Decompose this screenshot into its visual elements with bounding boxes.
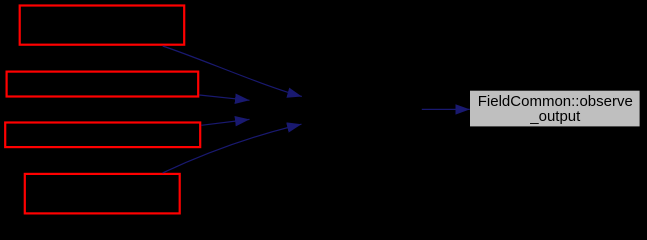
caller node box 4 (red, truncated)	[25, 174, 180, 214]
edge arrow box1 to middle node	[163, 46, 302, 97]
edge arrow middle node to FieldCommon::observe_output	[422, 108, 470, 110]
edge arrow box4 to middle node	[163, 124, 302, 173]
caller node box 3 (red, truncated)	[5, 123, 200, 148]
current node FieldCommon::observe_output (grey)	[470, 91, 640, 127]
caller node box 1 (red, truncated)	[20, 6, 185, 45]
edge arrow box2 to middle node	[199, 95, 249, 100]
edge arrow box3 to middle node	[201, 119, 249, 125]
svg-text:_output: _output	[529, 108, 581, 125]
caller node box 2 (red, truncated)	[7, 72, 199, 97]
